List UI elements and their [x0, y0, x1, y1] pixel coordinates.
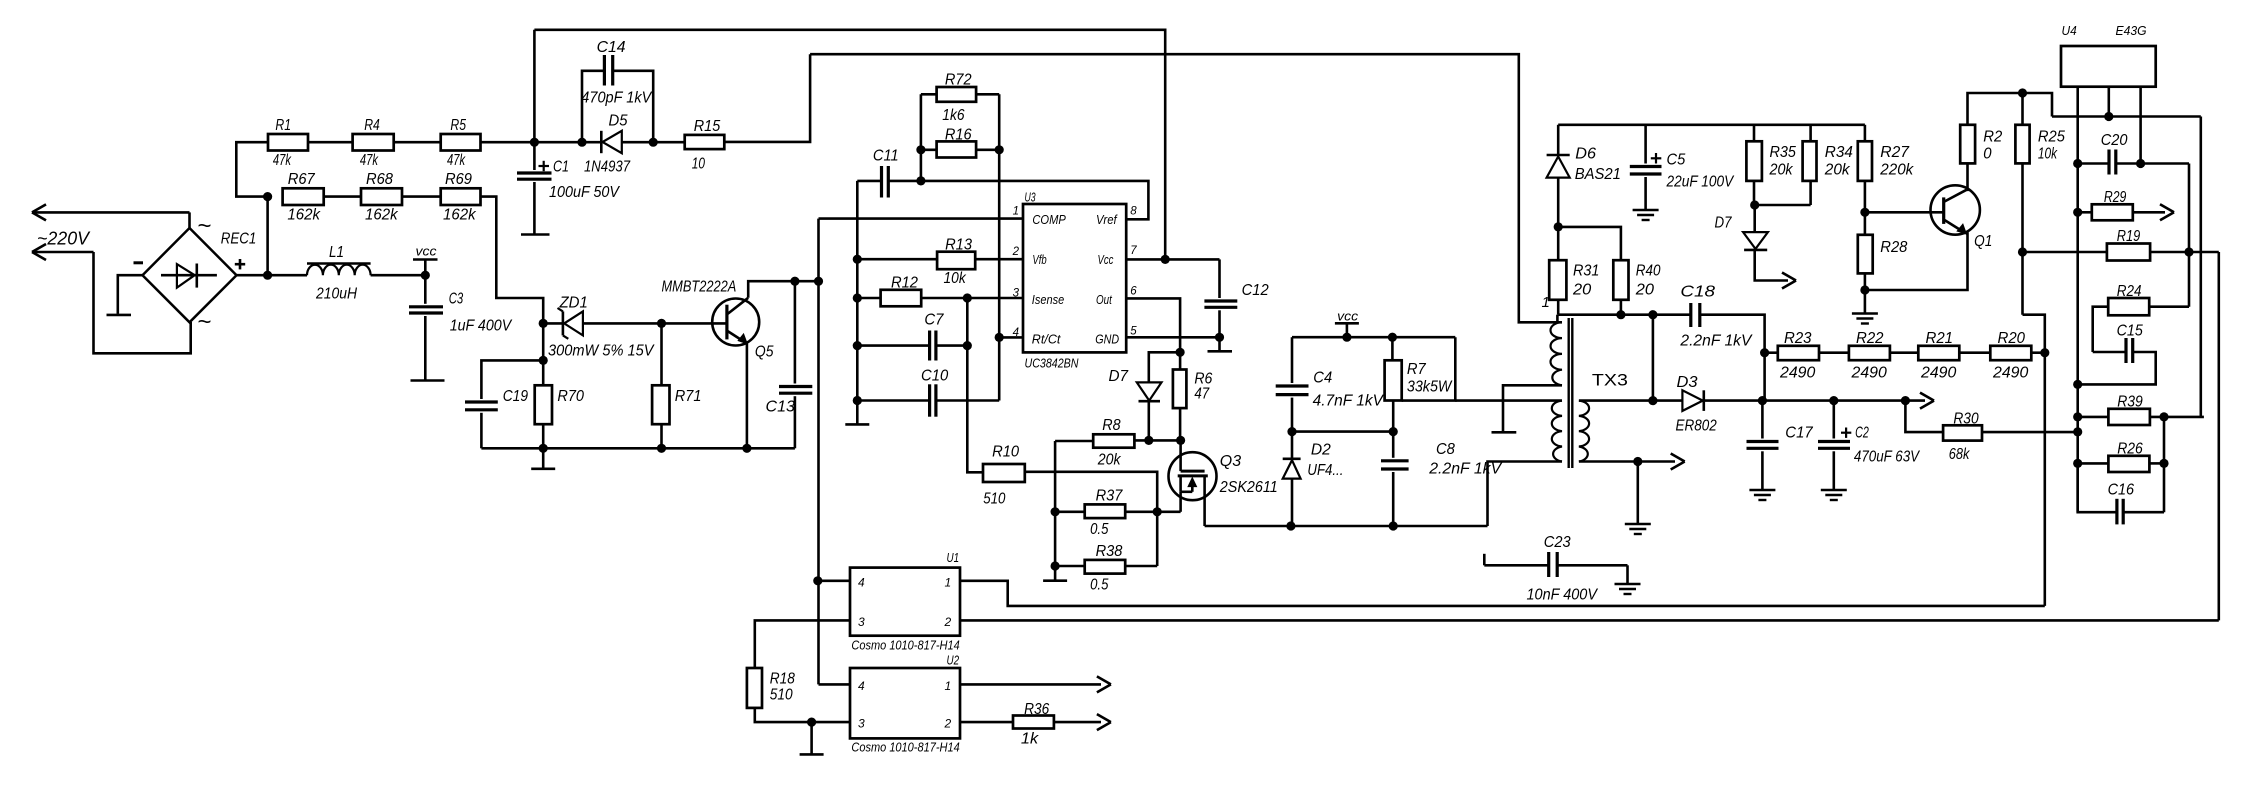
wire Isense sense bus	[967, 298, 983, 472]
wire R16 left stub	[921, 149, 937, 152]
ground bridge minus T-bar	[107, 314, 132, 317]
svg-text:D5: D5	[609, 113, 628, 130]
capacitor C5 labels	[1651, 152, 1735, 191]
node junction output	[1901, 396, 1910, 405]
node junction C20 left	[2073, 159, 2082, 168]
svg-text:BAS21: BAS21	[1575, 166, 1621, 183]
svg-text:10k: 10k	[2038, 146, 2058, 163]
wire R15 to top bus 2	[724, 54, 810, 142]
svg-text:C14: C14	[597, 39, 626, 56]
node junction C18 chain bottom	[1758, 396, 1767, 405]
svg-text:R36: R36	[1024, 701, 1049, 718]
svg-text:R7: R7	[1407, 361, 1427, 378]
capacitor C15	[2078, 323, 2156, 385]
optocoupler U1 pin numbers	[858, 576, 952, 630]
wire R1-R4	[308, 141, 353, 144]
svg-text:1: 1	[945, 576, 952, 590]
svg-text:~: ~	[198, 309, 212, 336]
svg-text:C11: C11	[873, 148, 899, 165]
ground R28 earth	[1852, 290, 1878, 324]
resistor R2	[1960, 125, 2002, 164]
svg-text:C12: C12	[1242, 282, 1269, 299]
wire R8 left bus down	[1054, 441, 1057, 566]
wire R72 left stub	[921, 93, 937, 96]
wire rail corner to aux top	[1402, 337, 1456, 400]
wire R12 left stub	[857, 297, 880, 300]
svg-text:C13: C13	[766, 399, 795, 416]
svg-text:Q5: Q5	[755, 344, 774, 361]
transformer TX3 aux winding	[1552, 401, 1562, 462]
ground C5 earth	[1633, 210, 1659, 221]
svg-text:2: 2	[944, 615, 952, 629]
resistor R6	[1173, 370, 1213, 441]
wire D7 to arrow	[1755, 250, 1796, 289]
capacitor C3 labels	[449, 291, 513, 335]
transistor Q3 2SK2611	[1169, 440, 1217, 526]
svg-text:Cosmo 1010-817-H14: Cosmo 1010-817-H14	[851, 740, 959, 755]
svg-text:E43G: E43G	[2116, 23, 2147, 38]
svg-text:R35: R35	[1770, 144, 1796, 161]
resistor R25	[2015, 93, 2065, 163]
capacitor C1	[517, 142, 552, 233]
wire R10 right to R37 node	[1025, 472, 1157, 512]
node junction R25/R19	[2018, 247, 2027, 256]
transformer TX3 primary winding	[1551, 322, 1563, 385]
svg-text:1k6: 1k6	[942, 107, 964, 124]
wire R25 bottom bus	[2021, 163, 2024, 314]
node junction D6/R31/R40	[1554, 222, 1563, 231]
svg-text:510: 510	[770, 687, 793, 704]
capacitor C8	[1381, 432, 1503, 526]
svg-text:1uF 400V: 1uF 400V	[450, 318, 513, 335]
svg-text:C20: C20	[2101, 132, 2128, 149]
svg-text:10k: 10k	[944, 270, 967, 287]
wire U4 pin right	[2139, 87, 2142, 164]
diode D6 labels	[1575, 146, 1621, 184]
wire Out pin6	[1126, 298, 1180, 369]
node junction R39 right	[2159, 412, 2168, 421]
svg-text:3: 3	[858, 615, 865, 629]
svg-text:4: 4	[858, 679, 865, 693]
inductor L1	[307, 264, 371, 276]
svg-text:R5: R5	[450, 117, 466, 134]
svg-text:4.7nF 1kV: 4.7nF 1kV	[1313, 393, 1385, 410]
wire R16 right stub	[976, 149, 999, 152]
capacitor C11 plates	[873, 148, 899, 198]
svg-text:MMBT2222A: MMBT2222A	[662, 279, 737, 296]
svg-text:1: 1	[1542, 294, 1550, 311]
ground C1 T-bar	[521, 233, 550, 236]
inductor L1 labels	[315, 244, 357, 303]
wire R13 left stub	[857, 258, 937, 261]
svg-text:R39: R39	[2117, 394, 2143, 411]
resistor R30	[1943, 411, 1982, 464]
resistor R21	[1918, 330, 1959, 382]
wire R67-R68	[324, 195, 361, 198]
wire R38 left stub	[1055, 565, 1085, 568]
capacitor C11	[856, 181, 859, 401]
wire clamp top rail	[1558, 124, 1865, 127]
node junction R12 right	[963, 293, 972, 302]
svg-text:R4: R4	[364, 117, 380, 134]
svg-text:R12: R12	[891, 275, 918, 292]
resistor R28	[1858, 212, 1908, 290]
capacitor C5	[1630, 125, 1662, 210]
node junction C12 bottom pin5	[1215, 333, 1224, 342]
node junction C7 left	[853, 341, 862, 350]
node junction R19 right	[2184, 247, 2193, 256]
wire Out node to D7 top	[1149, 352, 1180, 382]
resistor R18	[747, 668, 795, 708]
svg-text:162k: 162k	[443, 207, 477, 224]
resistor R70	[535, 385, 584, 424]
node junction R67 left	[263, 192, 272, 201]
node junction R39 left	[2073, 412, 2082, 421]
svg-text:TX3: TX3	[1592, 371, 1628, 390]
svg-text:ER802: ER802	[1676, 418, 1717, 435]
svg-text:R28: R28	[1880, 239, 1907, 256]
svg-text:C3: C3	[449, 291, 464, 308]
svg-text:470pF 1kV: 470pF 1kV	[581, 90, 652, 107]
svg-text:R67: R67	[288, 171, 316, 188]
rectifier REC1 inner diode	[161, 264, 217, 288]
svg-text:R22: R22	[1856, 330, 1884, 347]
resistor R13	[937, 237, 975, 288]
node junction D2 bottom	[1286, 521, 1295, 530]
node junction R37 left	[1051, 507, 1060, 516]
svg-text:Vcc: Vcc	[1098, 252, 1114, 267]
svg-text:Rt/Ct: Rt/Ct	[1032, 332, 1062, 347]
wire secondary gnd drop	[1637, 462, 1640, 524]
svg-text:C17: C17	[1785, 425, 1813, 442]
svg-text:1: 1	[1013, 206, 1019, 218]
wire R68-R69	[402, 195, 441, 198]
wire C4-R7 bottom link	[1292, 430, 1393, 433]
wire gate row	[1134, 439, 1180, 442]
node junction C20 right	[2136, 159, 2145, 168]
svg-text:D3: D3	[1677, 374, 1698, 391]
resistor R27	[1858, 125, 1914, 213]
node junction D7 bottom	[1144, 436, 1153, 445]
svg-text:C19: C19	[503, 388, 528, 405]
node junction D5 anode	[649, 138, 658, 147]
diode D3 ER802	[1682, 390, 1703, 411]
svg-text:2: 2	[944, 717, 952, 731]
regulator U4 labels	[2062, 23, 2147, 38]
resistor R29	[2078, 189, 2174, 220]
svg-text:2490: 2490	[1920, 365, 1956, 382]
capacitor C23 labels	[1527, 534, 1599, 604]
node junction R5/C1/C14	[530, 138, 539, 147]
wire AC input line 2 with arrow	[32, 244, 191, 353]
svg-text:R30: R30	[1953, 411, 1978, 428]
svg-text:R68: R68	[366, 171, 393, 188]
wire Q3 drain to snubber rail	[1205, 525, 1291, 528]
rectifier REC1 minus sign	[134, 261, 144, 264]
optocoupler U2 box	[850, 668, 960, 738]
svg-text:47k: 47k	[447, 152, 466, 169]
svg-text:R21: R21	[1926, 330, 1954, 347]
resistor R8	[1093, 417, 1134, 469]
svg-text:C1: C1	[553, 159, 569, 176]
wire Rt/Ct pin4 stub	[999, 336, 1023, 339]
wire R23-R22	[1819, 351, 1849, 354]
wire primary top rail	[1292, 336, 1455, 339]
wire C14 left leg	[582, 71, 604, 142]
wire R25 bus jog to R20 node	[2023, 315, 2045, 606]
svg-text:100uF 50V: 100uF 50V	[549, 184, 620, 201]
ground R38 T-bar	[1043, 566, 1067, 581]
svg-text:22uF 100V: 22uF 100V	[1666, 174, 1735, 191]
node junction C2 top	[1829, 396, 1838, 405]
regulator U4 box	[2061, 46, 2156, 87]
optocoupler U2 pin numbers	[858, 679, 952, 731]
wire Q1 collector to R2	[1967, 163, 1968, 189]
svg-text:R72: R72	[945, 72, 972, 89]
wire R23 left stub	[1765, 351, 1778, 354]
wire R37/R38 right bus	[1156, 512, 1159, 566]
svg-text:1k: 1k	[1021, 731, 1039, 748]
ground C3 T-bar	[411, 379, 445, 382]
svg-text:D6: D6	[1575, 146, 1596, 163]
svg-text:Q1: Q1	[1974, 233, 1992, 250]
svg-text:Vref: Vref	[1096, 212, 1118, 227]
svg-text:R38: R38	[1096, 543, 1123, 560]
svg-text:UF4...: UF4...	[1307, 462, 1343, 479]
wire L1 to C3 node	[371, 274, 426, 277]
svg-text:Q3: Q3	[1220, 453, 1241, 470]
node junction Out/R6/D7	[1176, 348, 1185, 357]
node junction secondary bottom gnd	[1633, 457, 1642, 466]
svg-text:R2: R2	[1983, 129, 2002, 146]
svg-text:R8: R8	[1102, 417, 1120, 434]
svg-text:R40: R40	[1636, 263, 1661, 280]
wire C14 right leg	[613, 71, 654, 142]
svg-text:R20: R20	[1998, 330, 2026, 347]
svg-text:U3: U3	[1025, 190, 1037, 205]
svg-text:R10: R10	[992, 444, 1019, 461]
wire R22-R21	[1890, 351, 1918, 354]
svg-text:220k: 220k	[1879, 162, 1914, 179]
svg-text:R27: R27	[1880, 144, 1910, 161]
wire D3 to output	[1704, 393, 1934, 409]
node junction secondary/D3	[1648, 396, 1657, 405]
svg-text:4: 4	[858, 576, 865, 590]
svg-text:C5: C5	[1667, 152, 1686, 169]
wire R18 bottom to U2 pin3	[755, 708, 850, 722]
wire C1 node riser to top	[533, 30, 536, 142]
svg-text:210uH: 210uH	[315, 286, 357, 303]
svg-text:47: 47	[1194, 386, 1210, 403]
svg-text:10: 10	[692, 156, 705, 173]
svg-text:R16: R16	[945, 127, 972, 144]
optocoupler U1 box	[850, 568, 960, 636]
node junction R40 bottom	[1616, 310, 1625, 319]
wire secondary bottom	[1579, 454, 1685, 470]
wire C11 to Vref corner	[888, 181, 1148, 219]
svg-text:510: 510	[983, 491, 1005, 508]
node junction R26 left	[2073, 459, 2082, 468]
rectifier REC1 label	[221, 231, 257, 248]
node junction R20 right	[2040, 348, 2049, 357]
svg-text:C7: C7	[924, 312, 944, 329]
svg-text:GND: GND	[1095, 332, 1119, 347]
wire rail drop to primary top	[1556, 315, 1559, 323]
wire GND pin5	[1126, 336, 1219, 339]
svg-text:20k: 20k	[1824, 162, 1851, 179]
resistor R35	[1746, 125, 1796, 205]
svg-text:D2: D2	[1311, 442, 1331, 459]
node junction C8 bottom	[1389, 521, 1398, 530]
svg-text:20: 20	[1635, 282, 1654, 299]
diode D6 BAS21	[1547, 155, 1570, 227]
op-amp U3 labels	[1025, 190, 1079, 371]
resistor R31	[1549, 227, 1599, 315]
svg-text:47k: 47k	[360, 152, 379, 169]
svg-text:D7: D7	[1109, 368, 1130, 385]
capacitor C10	[857, 368, 999, 417]
wire Q5 collector up	[748, 281, 818, 298]
wire C20 right bus down	[2188, 164, 2191, 307]
resistor R67	[283, 171, 324, 224]
wire D6 top stub	[1557, 125, 1560, 154]
svg-text:REC1: REC1	[221, 231, 257, 248]
node junction D5 cathode	[577, 138, 586, 147]
node junction Vcc pin7	[1161, 255, 1170, 264]
resistor R23	[1778, 330, 1819, 382]
svg-text:Isense: Isense	[1032, 292, 1064, 307]
svg-text:vcc: vcc	[1337, 309, 1359, 324]
capacitor C20	[2078, 132, 2189, 175]
svg-text:300mW 5% 15V: 300mW 5% 15V	[548, 343, 655, 360]
svg-text:U4: U4	[2062, 23, 2077, 38]
svg-text:R71: R71	[675, 388, 702, 405]
ground C2 earth	[1821, 490, 1847, 501]
optocoupler U1 labels	[851, 550, 959, 653]
diode D7 gate clamp	[1109, 368, 1162, 440]
svg-text:C15: C15	[2117, 323, 2143, 340]
resistor R22	[1849, 330, 1890, 382]
svg-text:D7: D7	[1715, 215, 1733, 232]
resistor R5	[441, 117, 481, 169]
wire ZD1 node down to R70/C19	[542, 323, 545, 385]
svg-text:R13: R13	[945, 237, 972, 254]
svg-text:vcc: vcc	[416, 244, 438, 259]
node junction L1/C3/VCC	[421, 271, 430, 280]
node junction R7 top	[1388, 333, 1397, 342]
ground U2 pin3 T-bar	[800, 722, 824, 754]
ground primary bottom T-bar	[1492, 431, 1517, 434]
resistor R69	[441, 171, 481, 224]
wire Q1 emitter to R28 bottom	[1865, 234, 1968, 291]
resistor R72	[937, 72, 977, 125]
op-amp U3 pin numbers left	[1012, 206, 1020, 340]
svg-text:R25: R25	[2038, 129, 2065, 146]
wire emitter ground bus	[481, 447, 795, 450]
svg-text:0.5: 0.5	[1090, 521, 1108, 538]
capacitor C16	[2078, 463, 2164, 524]
capacitor C14	[581, 39, 652, 107]
wire R8 left stub	[1055, 440, 1093, 443]
wire R1 row left drop	[236, 142, 268, 196]
capacitor C3	[409, 275, 443, 379]
power VCC symbol at C4	[1335, 309, 1359, 338]
svg-text:C16: C16	[2108, 482, 2135, 499]
svg-text:R29: R29	[2104, 189, 2126, 206]
wire U2 pin1 out arrow	[960, 676, 1111, 692]
wire base to Q1	[1865, 211, 1944, 214]
resistor R34	[1803, 125, 1853, 205]
resistor R39	[2078, 394, 2204, 426]
op-amp U3 UC3842BN box	[1023, 204, 1126, 352]
node junction C15 loop left	[2073, 380, 2082, 389]
svg-text:33k5W: 33k5W	[1407, 379, 1453, 396]
wire riser bridge output to R67 row	[266, 197, 269, 276]
wire U4 row to R39 bus corner	[2200, 117, 2203, 417]
transistor Q3 labels	[1219, 453, 1278, 496]
ground R70 T-bar	[531, 448, 555, 469]
wire R5 to C1 node	[481, 141, 535, 144]
svg-text:2.2nF 1kV: 2.2nF 1kV	[1428, 461, 1502, 478]
wire U2 pin4 stub	[819, 683, 851, 686]
diode ZD1 labels	[548, 295, 655, 360]
svg-text:470uF 63V: 470uF 63V	[1854, 449, 1920, 466]
svg-text:C4: C4	[1313, 370, 1332, 387]
transformer TX3 label	[1592, 371, 1628, 390]
capacitor C2	[1818, 401, 1850, 490]
wire output to R30	[1905, 401, 1943, 433]
wire ZD1 to Q5 base	[583, 322, 727, 325]
svg-text:4: 4	[1013, 327, 1019, 339]
svg-text:2490: 2490	[1779, 365, 1815, 382]
transformer TX3 secondary winding	[1579, 401, 1589, 462]
op-amp U3 pin names right	[1095, 212, 1119, 347]
wire D5 to R15	[622, 141, 685, 144]
node junction C19 top	[539, 356, 548, 365]
node junction R72 bus left bottom	[916, 176, 925, 185]
svg-text:Vfb: Vfb	[1032, 252, 1046, 267]
svg-text:L1: L1	[329, 244, 344, 261]
node junction gate/R6	[1176, 436, 1185, 445]
resistor R12	[881, 275, 922, 307]
svg-text:5: 5	[1130, 326, 1137, 338]
wire U4 pin row	[2052, 115, 2201, 118]
node junction R71 bottom	[657, 444, 666, 453]
svg-text:47k: 47k	[273, 152, 292, 169]
node junction C10 left	[853, 396, 862, 405]
node ~220V label	[37, 229, 91, 249]
svg-text:20k: 20k	[1769, 162, 1794, 179]
wire U2 pin2 to R36	[960, 721, 1013, 724]
wire R70 bottom	[542, 424, 545, 448]
node junction R38 left	[1051, 561, 1060, 570]
capacitor C12	[1204, 259, 1268, 350]
capacitor C7	[857, 312, 967, 361]
node junction R7 bottom	[1389, 427, 1398, 436]
svg-text:6: 6	[1130, 286, 1137, 298]
node junction R27/R28/Q1 base	[1860, 208, 1869, 217]
wire C11 left	[857, 180, 881, 183]
power VCC symbol at C3	[413, 244, 438, 276]
transistor Q1	[1931, 185, 1980, 234]
wire primary bottom exit	[1503, 385, 1562, 431]
capacitor C19	[465, 360, 543, 448]
svg-text:COMP: COMP	[1032, 212, 1066, 227]
wire U4 pin middle	[2108, 87, 2111, 117]
wire C1 node to D5	[534, 141, 601, 144]
svg-text:C10: C10	[921, 368, 948, 385]
capacitor C4	[1276, 337, 1384, 431]
